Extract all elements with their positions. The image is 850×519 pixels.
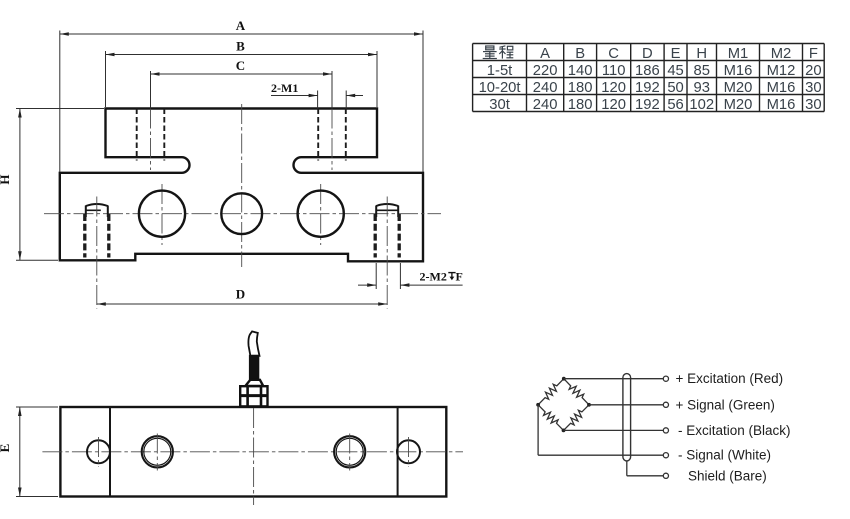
svg-text:240: 240 (533, 97, 558, 113)
svg-text:2-M2: 2-M2 (420, 270, 447, 284)
top view left end line (109, 407, 111, 497)
svg-text:F: F (809, 46, 818, 62)
svg-text:10-20t: 10-20t (479, 80, 521, 96)
strain gauge resistor R1 (top-left bridge arm) (538, 379, 564, 405)
bridge node bottom (-Excitation) (562, 429, 566, 433)
cable (white with outline) (248, 331, 259, 355)
svg-text:- Excitation (Black): - Excitation (Black) (678, 423, 791, 438)
top view counterbored hole left (142, 436, 173, 467)
right through-hole (298, 191, 344, 237)
wire -Signal (538, 405, 663, 455)
svg-text:120: 120 (601, 97, 626, 113)
svg-text:E: E (0, 444, 12, 453)
svg-text:C: C (608, 46, 619, 62)
specification table grid (473, 44, 825, 112)
svg-text:+ Excitation (Red): + Excitation (Red) (676, 371, 784, 386)
terminal circle +Signal (663, 402, 668, 407)
dimension 2-M2 line and label (358, 270, 463, 287)
dimension H extension lines (16, 109, 104, 261)
svg-text:- Signal (White): - Signal (White) (678, 448, 771, 463)
wire -Excitation (564, 429, 664, 431)
terminal circle Shield (663, 473, 668, 478)
svg-text:M16: M16 (767, 97, 796, 113)
svg-text:E: E (671, 46, 681, 62)
table header row (540, 46, 818, 62)
top view small hole left centerline (98, 437, 100, 467)
dimension E extension lines (16, 407, 58, 497)
svg-text:186: 186 (635, 63, 660, 79)
top view counterbored hole right (334, 436, 365, 467)
top view small hole right (397, 440, 420, 463)
dimension 2-M1 line and label (271, 81, 363, 98)
dimension H line (0, 109, 22, 261)
svg-text:180: 180 (568, 97, 593, 113)
left M1 tapped hole (hidden) (137, 109, 165, 171)
dimension 2-M2 extension lines (376, 263, 400, 289)
top view vertical centerline (253, 408, 255, 505)
svg-text:F: F (456, 270, 463, 284)
terminal circle -Excitation (663, 428, 668, 433)
connector neck trapezoid (245, 380, 263, 386)
vertical centerline right hole (320, 184, 322, 245)
svg-text:D: D (236, 287, 245, 302)
top view small hole left (87, 440, 110, 463)
svg-text:D: D (642, 46, 653, 62)
strain gauge resistor R3 (bottom-left bridge arm) (538, 405, 563, 431)
top view small hole right centerline (408, 437, 410, 467)
wire +Excitation (564, 378, 663, 380)
load cell body outline (side view) (60, 109, 423, 262)
dimension C line (151, 58, 333, 76)
table data row 30t (489, 97, 821, 113)
svg-text:B: B (236, 38, 245, 53)
svg-text:192: 192 (635, 97, 660, 113)
top view horizontal centerline (42, 451, 463, 453)
svg-text:H: H (696, 46, 707, 62)
svg-text:M2: M2 (771, 46, 792, 62)
svg-text:30: 30 (805, 80, 821, 96)
svg-text:M16: M16 (724, 63, 753, 79)
svg-text:A: A (540, 46, 550, 62)
svg-text:Shield (Bare): Shield (Bare) (688, 468, 767, 483)
top view body outline (60, 407, 446, 497)
dimension B line (106, 38, 378, 56)
svg-text:180: 180 (568, 80, 593, 96)
middle through-hole (221, 193, 262, 234)
bridge node left (-Signal) (536, 403, 540, 407)
cable stem (black) (249, 355, 259, 380)
svg-text:H: H (0, 174, 12, 184)
dimension E line (0, 407, 22, 497)
terminal circle +Excitation (663, 376, 668, 381)
wire Shield (627, 461, 663, 476)
bridge node top (+Excitation) (562, 377, 566, 381)
strain gauge resistor R2 (top-right bridge arm) (564, 379, 589, 405)
svg-text:B: B (575, 46, 585, 62)
table header cell: range (Chinese) (483, 46, 514, 59)
top view counterbored hole right centerline (349, 434, 351, 471)
dimension D line (97, 287, 387, 306)
vertical centerline left hole (161, 184, 163, 245)
svg-text:45: 45 (667, 63, 683, 79)
top view right end line (397, 407, 399, 497)
wire +Signal (589, 404, 663, 406)
svg-text:93: 93 (694, 80, 710, 96)
svg-text:1-5t: 1-5t (487, 63, 513, 79)
svg-text:102: 102 (689, 97, 714, 113)
left mounting stud M2 (85, 197, 109, 309)
svg-text:120: 120 (601, 80, 626, 96)
svg-text:M20: M20 (724, 80, 753, 96)
svg-text:20: 20 (805, 63, 821, 79)
dimension B extension lines (106, 51, 378, 107)
connector base block (240, 386, 267, 406)
right mounting stud M2 (375, 197, 399, 309)
table data row 10-20t (479, 80, 822, 96)
svg-text:M20: M20 (724, 97, 753, 113)
right M1 tapped hole (hidden) (318, 109, 346, 171)
horizontal centerline through holes (44, 213, 441, 215)
strain gauge resistor R4 (bottom-right bridge arm) (564, 405, 590, 431)
svg-text:140: 140 (568, 63, 593, 79)
svg-text:C: C (236, 58, 245, 73)
svg-text:30t: 30t (489, 97, 510, 113)
dimension A line (60, 18, 423, 36)
dimension 2-M1 extension lines (318, 91, 347, 109)
vertical centerline middle hole (241, 104, 243, 267)
table data row 1-5t (487, 63, 822, 79)
svg-text:A: A (236, 18, 246, 33)
svg-text:220: 220 (533, 63, 558, 79)
bridge node right (+Signal) (587, 403, 591, 407)
svg-text:85: 85 (694, 63, 710, 79)
left through-hole (139, 191, 185, 237)
dimension C extension lines (151, 71, 333, 108)
svg-text:56: 56 (667, 97, 683, 113)
terminal circle -Signal (663, 453, 668, 458)
svg-text:M1: M1 (728, 46, 749, 62)
svg-text:+ Signal (Green): + Signal (Green) (676, 397, 775, 412)
svg-text:240: 240 (533, 80, 558, 96)
top view counterbored hole left centerline (156, 434, 158, 471)
svg-text:M12: M12 (767, 63, 796, 79)
cable shield sheath (623, 374, 631, 461)
svg-text:M16: M16 (767, 80, 796, 96)
svg-text:192: 192 (635, 80, 660, 96)
svg-text:2-M1: 2-M1 (271, 81, 298, 95)
svg-text:30: 30 (805, 97, 821, 113)
svg-text:50: 50 (667, 80, 683, 96)
dimension A extension lines (60, 31, 423, 173)
svg-text:110: 110 (602, 63, 626, 79)
